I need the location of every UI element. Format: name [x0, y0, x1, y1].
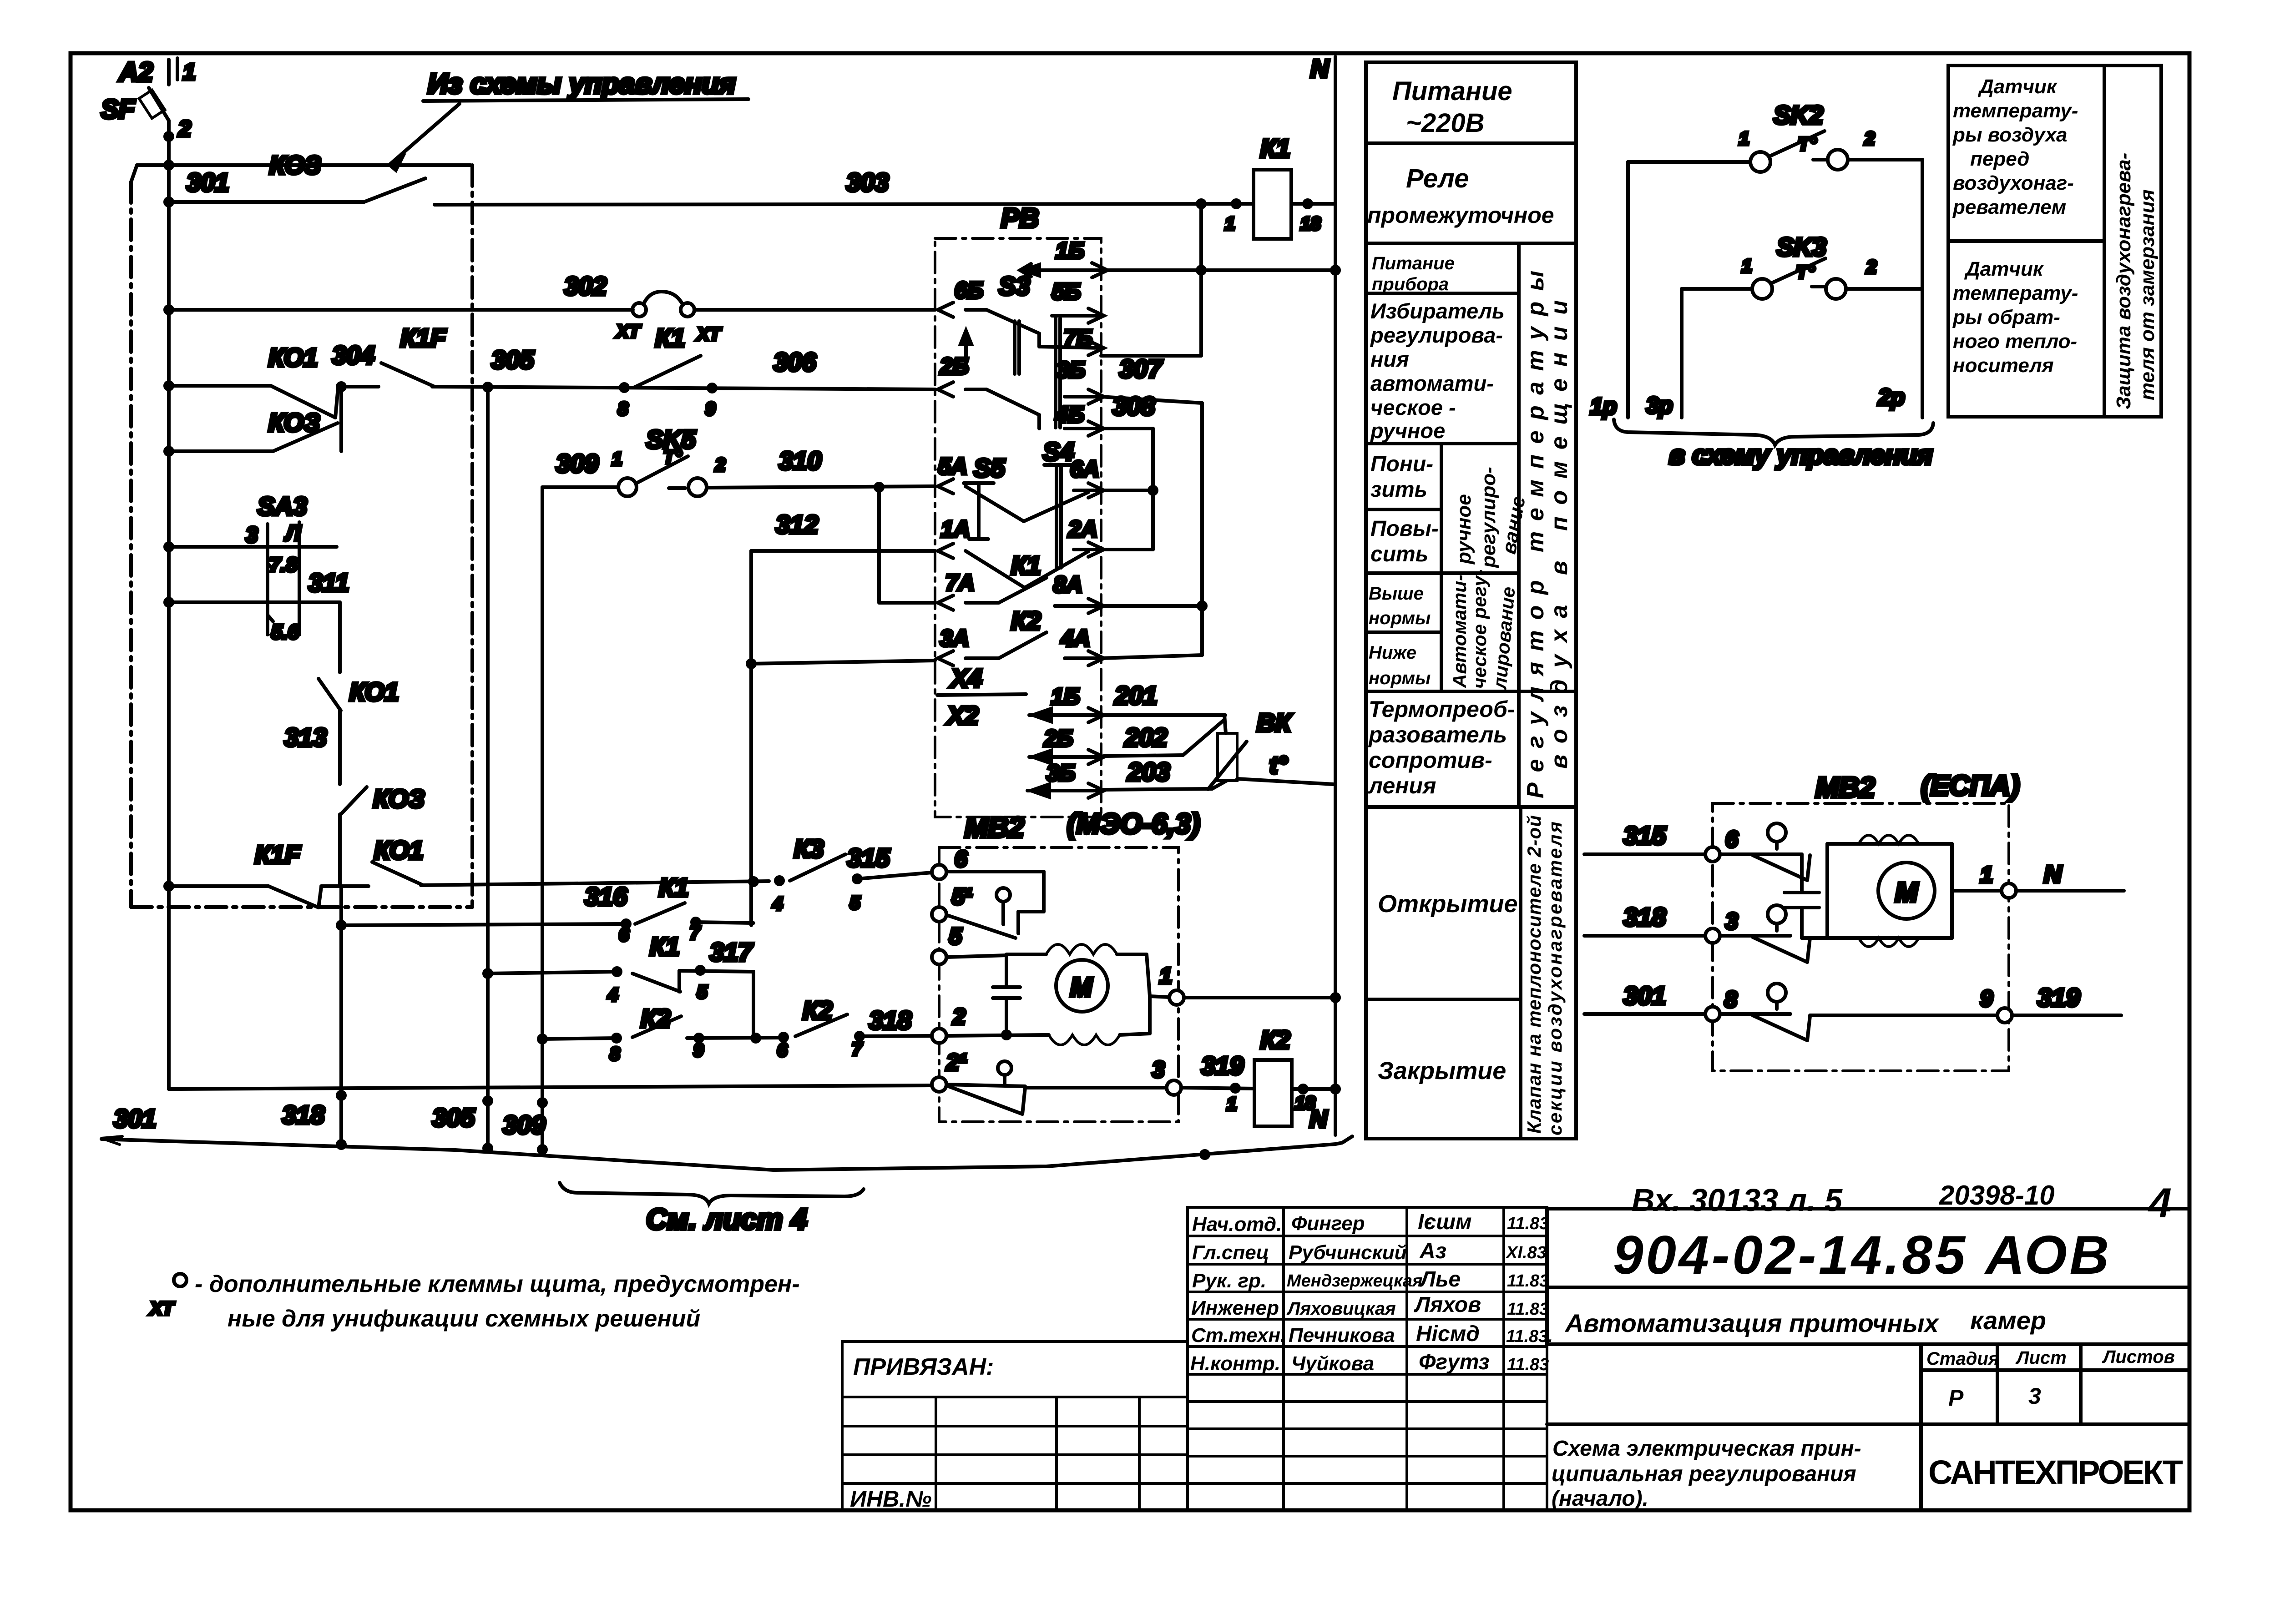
svg-text:К2: К2: [803, 996, 833, 1024]
svg-text:202: 202: [1124, 723, 1167, 751]
svg-text:8А: 8А: [1053, 572, 1082, 597]
svg-text:7: 7: [852, 1039, 863, 1059]
svg-text:промежуточное: промежуточное: [1367, 202, 1554, 228]
pin 5A arrow in: [938, 454, 1088, 521]
svg-text:11.83: 11.83: [1507, 1271, 1549, 1291]
svg-text:Из схемы управления: Из схемы управления: [428, 68, 736, 100]
svg-text:К2: К2: [1260, 1025, 1290, 1054]
svg-text:Стадия: Стадия: [1926, 1349, 1999, 1369]
wire 318 with contacts K2, K2: [539, 996, 932, 1064]
svg-text:Ієшм: Ієшм: [1418, 1210, 1472, 1234]
svg-text:(МЭО-6,3): (МЭО-6,3): [1067, 808, 1200, 840]
svg-text:КО1: КО1: [268, 343, 318, 372]
svg-text:КО1: КО1: [374, 836, 423, 864]
wire 1B to N: [1020, 238, 1339, 277]
svg-text:Ст.техн.: Ст.техн.: [1191, 1324, 1286, 1347]
svg-text:К1F: К1F: [255, 840, 301, 869]
svg-text:К1: К1: [1260, 134, 1290, 162]
svg-text:3А: 3А: [940, 625, 969, 651]
switch S4: [1043, 437, 1074, 568]
svg-text:1: 1: [1739, 129, 1749, 149]
svg-text:регулиро-: регулиро-: [1477, 467, 1500, 568]
svg-text:3: 3: [246, 523, 258, 547]
branch 313 with contacts KO1, KO3: [284, 602, 425, 886]
node 9 wire 319: [1980, 983, 2121, 1023]
svg-text:МВ2: МВ2: [965, 812, 1024, 843]
svg-text:зить: зить: [1370, 478, 1427, 502]
svg-text:1А: 1А: [941, 516, 970, 542]
wire 3A feed: [748, 660, 755, 667]
svg-text:3р: 3р: [1646, 393, 1673, 418]
svg-text:носителя: носителя: [1953, 354, 2054, 377]
svg-text:5: 5: [949, 923, 962, 949]
svg-text:МВ2: МВ2: [1815, 772, 1875, 803]
svg-text:SF: SF: [101, 95, 136, 124]
riser to 7A: [877, 487, 881, 601]
svg-text:4: 4: [607, 985, 618, 1005]
svg-text:М: М: [1070, 973, 1093, 1002]
svg-text:ры обрат-: ры обрат-: [1952, 306, 2060, 328]
svg-text:К1: К1: [659, 873, 689, 902]
svg-text:САНТЕХПРОЕКТ: САНТЕХПРОЕКТ: [1928, 1453, 2183, 1491]
svg-text:305: 305: [432, 1103, 475, 1132]
svg-text:A2: A2: [118, 57, 153, 87]
svg-text:9: 9: [705, 399, 716, 419]
svg-text:Ниже: Ниже: [1369, 643, 1416, 663]
svg-text:Схема электрическая прин-: Схема электрическая прин-: [1552, 1437, 1861, 1461]
controller PB box (dash-dot): [935, 203, 1101, 817]
svg-text:305: 305: [491, 345, 534, 374]
svg-text:315: 315: [1623, 821, 1666, 850]
svg-text:9: 9: [1980, 986, 1993, 1011]
svg-text:1: 1: [1980, 862, 1993, 888]
svg-text:304: 304: [332, 341, 374, 369]
svg-text:Фгутз: Фгутз: [1419, 1350, 1490, 1374]
svg-text:312: 312: [776, 510, 818, 539]
terminal 6: [932, 865, 946, 879]
svg-text:904-02-14.85 АОВ: 904-02-14.85 АОВ: [1613, 1225, 2109, 1286]
svg-text:Открытие: Открытие: [1378, 890, 1518, 918]
svg-text:t°: t°: [1269, 751, 1288, 779]
svg-text:5: 5: [850, 893, 860, 913]
svg-text:4А: 4А: [1061, 625, 1090, 651]
svg-text:6: 6: [619, 925, 629, 945]
svg-text:КОЗ: КОЗ: [269, 151, 321, 179]
limit contact 2' / wire 319: [946, 1051, 1254, 1114]
svg-text:3: 3: [2028, 1383, 2041, 1409]
svg-text:7А: 7А: [945, 570, 975, 595]
svg-text:Инженер: Инженер: [1191, 1297, 1279, 1319]
svg-text:воздухонаг-: воздухонаг-: [1953, 172, 2074, 194]
svg-text:301: 301: [114, 1104, 156, 1133]
svg-text:КО1: КО1: [349, 677, 399, 706]
svg-text:ревателем: ревателем: [1952, 196, 2066, 218]
svg-text:5¹: 5¹: [952, 884, 972, 909]
wire 318 in: [1584, 903, 1738, 943]
svg-text:6А: 6А: [1070, 456, 1099, 482]
svg-text:318: 318: [282, 1100, 325, 1129]
wire 311: [165, 599, 340, 606]
wire 316 with contact K1: [338, 873, 753, 945]
svg-text:КОЗ: КОЗ: [268, 408, 320, 437]
svg-text:2: 2: [1864, 129, 1875, 149]
terminal 2': [932, 1077, 946, 1092]
svg-text:Ляховицкая: Ляховицкая: [1286, 1299, 1396, 1319]
svg-text:3Б: 3Б: [1057, 357, 1085, 383]
svg-text:301: 301: [1623, 981, 1666, 1010]
svg-text:Закрытие: Закрытие: [1378, 1057, 1506, 1084]
svg-text:Ляхов: Ляхов: [1414, 1293, 1481, 1317]
thermostat SK3: [1682, 232, 1922, 299]
svg-text:Питание: Питание: [1392, 76, 1512, 106]
svg-text:К3: К3: [794, 834, 824, 863]
svg-text:ПРИВЯЗАН:: ПРИВЯЗАН:: [853, 1354, 994, 1380]
N bus: [1310, 54, 1335, 1135]
node 1 to N: [1980, 861, 2124, 898]
title block: signature table: [1188, 1207, 1547, 1510]
connector X4 / X2: [937, 664, 1026, 730]
svg-text:XI.83: XI.83: [1505, 1243, 1547, 1262]
svg-text:4: 4: [772, 894, 783, 914]
panel boundary box (dash-dot): [131, 165, 472, 907]
wire 312: [751, 510, 935, 551]
svg-text:(ЕСПА): (ЕСПА): [1921, 770, 2020, 802]
svg-text:303: 303: [846, 168, 889, 197]
svg-text:Печникова: Печникова: [1289, 1324, 1395, 1347]
svg-text:302: 302: [564, 272, 607, 300]
svg-text:температу-: температу-: [1953, 282, 2078, 304]
svg-text:ления: ления: [1368, 773, 1436, 798]
svg-text:М: М: [1895, 877, 1919, 908]
svg-text:ципиальная регулирования: ципиальная регулирования: [1552, 1462, 1856, 1486]
svg-text:317: 317: [710, 938, 753, 966]
wire 318 riser: [338, 886, 345, 1148]
svg-text:8: 8: [1724, 987, 1737, 1012]
svg-text:1Б: 1Б: [1056, 238, 1084, 263]
row lines: [1366, 141, 1576, 145]
svg-text:ного тепло-: ного тепло-: [1953, 330, 2077, 353]
svg-text:1: 1: [1225, 214, 1235, 234]
svg-text:К1: К1: [1011, 551, 1041, 580]
terminal 5': [932, 907, 946, 922]
contact 6 with pin: [1720, 823, 1810, 880]
svg-text:в схему управления: в схему управления: [1669, 440, 1933, 470]
svg-text:6: 6: [1725, 827, 1739, 852]
svg-text:перед: перед: [1970, 148, 2029, 170]
svg-text:316: 316: [585, 882, 627, 911]
wire 317 with contact K1: [484, 932, 753, 1039]
pin 7A / contact K1 / pin 8A: [938, 551, 1104, 613]
thermostat SK5 wire 309/310: [542, 425, 935, 496]
pin 1A arrow in: [938, 516, 1088, 588]
selector SA3: [165, 492, 349, 643]
svg-text:ХТ: ХТ: [616, 322, 642, 342]
svg-text:N: N: [1309, 1105, 1328, 1133]
wire 301 with contact KO3: [165, 151, 1254, 206]
svg-text:ры воздуха: ры воздуха: [1952, 124, 2067, 146]
svg-text:1: 1: [183, 59, 196, 85]
svg-text:1: 1: [1742, 256, 1752, 276]
column lines: [1517, 243, 1521, 807]
svg-text:Реле: Реле: [1406, 164, 1469, 193]
contact 3 with pin: [1720, 905, 1827, 962]
svg-text:Мендзержецкая: Мендзержецкая: [1287, 1271, 1422, 1291]
svg-text:Автоматизация приточных: Автоматизация приточных: [1564, 1309, 1940, 1337]
svg-text:Клапан на теплоносителе 2-ой: Клапан на теплоносителе 2-ой: [1523, 815, 1545, 1134]
svg-text:318: 318: [869, 1006, 912, 1034]
doc numbers: [1632, 1180, 2172, 1226]
svg-text:309: 309: [556, 449, 598, 478]
svg-text:РВ: РВ: [1001, 203, 1039, 233]
svg-text:ХТ: ХТ: [696, 324, 722, 344]
wire 304/305/306 with contacts KO1, K1F, K1: [165, 323, 935, 419]
svg-text:18: 18: [1300, 214, 1321, 234]
note "Из схемы управления": [389, 68, 748, 170]
svg-text:318: 318: [1623, 903, 1666, 931]
pin 2B arrow in / switch S3 lower: [938, 318, 1163, 436]
svg-text:разователь: разователь: [1368, 722, 1507, 747]
svg-text:319: 319: [1201, 1051, 1244, 1080]
svg-text:ные для унификации схемных реш: ные для унификации схемных решений: [227, 1306, 700, 1332]
svg-text:К1: К1: [655, 323, 685, 352]
actuator MB2 (MEO-6,3) box: [939, 808, 1200, 1122]
svg-text:Т°: Т°: [663, 447, 682, 467]
svg-text:9: 9: [693, 1040, 704, 1060]
svg-text:SK2: SK2: [1774, 101, 1823, 129]
svg-text:Термопреоб-: Термопреоб-: [1369, 696, 1515, 722]
svg-text:ВК: ВК: [1257, 708, 1292, 737]
svg-text:температу-: температу-: [1953, 100, 2078, 122]
svg-text:сопротив-: сопротив-: [1369, 747, 1492, 773]
svg-text:Защита воздухонагрева-: Защита воздухонагрева-: [2113, 153, 2135, 409]
svg-text:К1F: К1F: [400, 323, 447, 352]
svg-text:Гл.спец: Гл.спец: [1192, 1241, 1269, 1264]
svg-text:307: 307: [1119, 354, 1163, 383]
svg-text:2А: 2А: [1068, 516, 1097, 542]
relay coil K1: [1198, 134, 1335, 239]
function table frame: [1366, 62, 1576, 1139]
limit contact 5': [946, 872, 1044, 938]
svg-text:Листов: Листов: [2102, 1347, 2175, 1367]
svg-text:ХТ: ХТ: [149, 1299, 175, 1319]
svg-text:5Б: 5Б: [1052, 279, 1081, 304]
breaker SF: [101, 57, 196, 141]
svg-text:Пони-: Пони-: [1370, 452, 1433, 476]
svg-text:11.83: 11.83: [1507, 1300, 1549, 1319]
bottom feeder line: [169, 1085, 932, 1106]
svg-text:313: 313: [284, 723, 327, 751]
svg-text:11.83: 11.83: [1507, 1214, 1549, 1233]
svg-text:308: 308: [1112, 392, 1155, 420]
svg-text:~220В: ~220В: [1406, 108, 1485, 138]
svg-text:Фингер: Фингер: [1291, 1212, 1365, 1235]
pin 1B arrow out: [1021, 263, 1107, 277]
sensor description boxes: [1948, 66, 2161, 417]
svg-text:ИНВ.№: ИНВ.№: [850, 1486, 931, 1512]
pin 2A arrow out: [1068, 516, 1104, 557]
svg-text:3: 3: [1725, 908, 1738, 934]
svg-text:ручное: ручное: [1370, 419, 1445, 443]
svg-text:311: 311: [308, 568, 349, 597]
svg-text:1: 1: [612, 449, 622, 469]
svg-text:6: 6: [777, 1040, 788, 1060]
svg-text:S3: S3: [999, 272, 1030, 300]
footnote XT terminal legend: [149, 1271, 800, 1332]
svg-text:Х4: Х4: [950, 664, 982, 692]
svg-text:7: 7: [690, 923, 701, 943]
svg-text:ческое -: ческое -: [1370, 395, 1456, 419]
output ladder 307/308: [1101, 397, 1206, 658]
svg-text:нормы: нормы: [1369, 608, 1431, 628]
switch S5: [964, 454, 1005, 539]
svg-text:прибора: прибора: [1372, 274, 1449, 294]
svg-text:нормы: нормы: [1369, 668, 1431, 688]
svg-text:Н.контр.: Н.контр.: [1190, 1352, 1280, 1375]
svg-text:310: 310: [779, 446, 821, 475]
motor M with windings: [946, 944, 1169, 1045]
contact 8 with pin: [1720, 983, 1997, 1040]
pins 1B 2B 3B to sensor BK: [1027, 681, 1227, 798]
actuator MB2 (ESPA) box: [1713, 770, 2020, 1071]
svg-text:301: 301: [187, 168, 229, 197]
svg-text:315: 315: [847, 843, 890, 872]
svg-text:2: 2: [1866, 257, 1876, 277]
svg-text:КОЗ: КОЗ: [373, 784, 425, 813]
svg-text:306: 306: [773, 348, 816, 376]
svg-text:Избиратель: Избиратель: [1370, 299, 1505, 323]
net 312 riser: [749, 551, 753, 925]
svg-text:Нісмд: Нісмд: [1416, 1322, 1480, 1346]
svg-text:SK3: SK3: [1777, 232, 1826, 261]
svg-text:5А: 5А: [938, 454, 967, 479]
wire 315 with contacts K1F, KO1, K3: [165, 834, 932, 914]
svg-text:автомати-: автомати-: [1370, 371, 1494, 395]
svg-text:1: 1: [1227, 1094, 1237, 1114]
svg-text:Автомати-: Автомати-: [1449, 575, 1470, 688]
wire 301 in: [1584, 981, 1737, 1021]
svg-text:К1: К1: [650, 932, 680, 961]
svg-text:11.83: 11.83: [1507, 1355, 1549, 1374]
svg-text:Повы-: Повы-: [1370, 517, 1439, 541]
svg-text:сить: сить: [1370, 542, 1428, 566]
svg-text:6Б: 6Б: [955, 277, 983, 303]
svg-text:- дополнительные клеммы щита,: - дополнительные клеммы щита, предусмотр…: [195, 1271, 800, 1297]
wire 305 riser: [484, 387, 491, 1152]
svg-text:Выше: Выше: [1369, 584, 1424, 604]
svg-text:Рубчинский: Рубчинский: [1289, 1241, 1407, 1264]
svg-text:2р: 2р: [1878, 384, 1905, 410]
svg-text:См. лист 4: См. лист 4: [646, 1203, 807, 1236]
svg-text:1: 1: [1159, 963, 1172, 989]
pin 3A / contact K2 / pin 4A: [938, 606, 1104, 666]
svg-text:319: 319: [2037, 983, 2080, 1012]
svg-text:Р: Р: [1948, 1385, 1964, 1411]
pin 6A arrow out: [1070, 456, 1104, 498]
wires to control circuit: [1590, 160, 1922, 419]
svg-text:6: 6: [955, 846, 968, 872]
svg-text:8: 8: [610, 1044, 620, 1064]
svg-text:К2: К2: [1011, 606, 1041, 635]
wire 302 with terminals XT: [165, 272, 935, 344]
reference "См. лист 4": [560, 1183, 864, 1236]
svg-text:S4: S4: [1043, 437, 1074, 466]
svg-text:Аз: Аз: [1419, 1239, 1446, 1263]
wire 315 in: [1584, 821, 1739, 862]
svg-text:(начало).: (начало).: [1552, 1487, 1648, 1511]
table texts: [1367, 76, 1572, 1135]
wire KO3 branch: [165, 387, 341, 455]
terminal 5: [932, 950, 946, 964]
svg-text:201: 201: [1114, 681, 1157, 710]
relay coil K2: [1227, 1025, 1339, 1133]
svg-text:N: N: [2044, 861, 2062, 888]
svg-text:7.8: 7.8: [269, 554, 298, 576]
svg-text:4: 4: [2148, 1180, 2172, 1226]
svg-text:8: 8: [618, 399, 628, 419]
svg-text:4Б: 4Б: [1055, 402, 1084, 427]
wire node to 5B7B: [1199, 204, 1203, 356]
svg-text:2: 2: [952, 1004, 966, 1029]
left supply bus L: [167, 121, 171, 1089]
svg-text:3: 3: [1152, 1057, 1165, 1082]
thermostat SK2: [1628, 101, 1922, 172]
svg-text:камер: камер: [1970, 1306, 2046, 1335]
svg-text:Лист: Лист: [2015, 1348, 2067, 1368]
svg-text:1р: 1р: [1590, 393, 1617, 419]
svg-text:2Б: 2Б: [1044, 726, 1073, 751]
svg-text:203: 203: [1127, 757, 1170, 786]
svg-text:Рук. гр.: Рук. гр.: [1192, 1270, 1266, 1292]
svg-text:N: N: [1310, 54, 1330, 83]
svg-text:ческое регу-: ческое регу-: [1469, 570, 1490, 689]
svg-text:Х2: Х2: [946, 701, 979, 730]
terminal 2: [932, 1029, 946, 1043]
svg-text:1Б: 1Б: [1051, 684, 1080, 709]
svg-text:2: 2: [178, 116, 191, 141]
svg-text:Датчик: Датчик: [1964, 258, 2044, 280]
svg-text:SA3: SA3: [258, 492, 307, 520]
title block: document number: [1547, 1209, 2189, 1510]
pin 6B arrow in / switch S3: [938, 272, 1104, 374]
svg-text:309: 309: [503, 1110, 545, 1139]
svg-text:регулирова-: регулирова-: [1370, 323, 1503, 347]
svg-text:Вх. 30133 л. 5: Вх. 30133 л. 5: [1632, 1182, 1843, 1218]
svg-text:ручное: ручное: [1453, 494, 1475, 565]
svg-text:20398-10: 20398-10: [1939, 1180, 2055, 1210]
svg-text:Чуйкова: Чуйкова: [1291, 1352, 1374, 1375]
svg-text:Питание: Питание: [1372, 253, 1455, 273]
svg-text:Датчик: Датчик: [1977, 76, 2058, 98]
svg-text:Лье: Лье: [1419, 1267, 1461, 1291]
title block: binding box: [842, 1342, 1188, 1510]
svg-text:Нач.отд.: Нач.отд.: [1192, 1213, 1282, 1236]
thermistor BK: [1208, 708, 1333, 789]
svg-text:2: 2: [715, 455, 725, 475]
svg-text:2¹: 2¹: [946, 1049, 967, 1075]
wire 309 riser: [539, 487, 546, 1153]
svg-text:теля от замерзания: теля от замерзания: [2136, 189, 2159, 400]
svg-text:5: 5: [697, 982, 708, 1002]
svg-text:ния: ния: [1370, 347, 1409, 371]
svg-text:5.6: 5.6: [271, 621, 299, 643]
svg-text:S5: S5: [974, 454, 1005, 482]
bottom bus to sheet 4: [101, 1100, 1352, 1170]
capacitor and motor: [1785, 835, 2002, 947]
node 1 to N: [1159, 963, 1339, 1005]
brace: [1614, 419, 1933, 445]
